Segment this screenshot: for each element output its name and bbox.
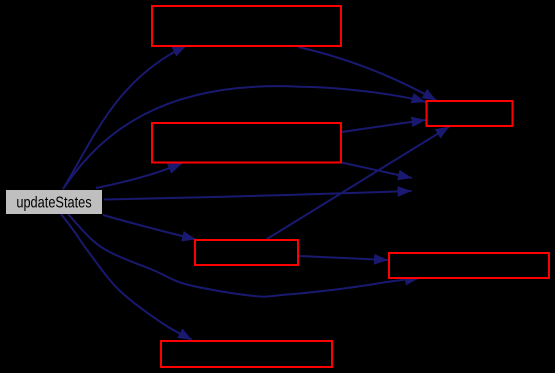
edge boxB->hidden node [342,163,413,179]
edge boxB->boxE [342,120,426,132]
svg-text:updateStates: updateStates [16,194,91,212]
node boxE (small top-right red box) [427,101,513,126]
node boxD (right red box) [389,253,549,278]
edge boxC->boxD [299,256,388,260]
edge updateStates->hidden node (horizontal) [104,191,412,200]
edge updateStates->boxF [61,214,192,340]
edge updateStates->boxB [96,163,182,188]
node boxC (small middle red box) [195,240,298,265]
edge updateStates->boxC [103,215,196,240]
edge updateStates->boxD (long bottom curve) [68,214,419,297]
node boxF (bottom red box) [161,341,332,367]
edge updateStates->boxA [63,46,187,190]
edge boxC->boxE [267,127,450,240]
node updateStates (gray current node) [6,190,102,214]
edge updateStates->boxE (long top curve) [63,86,426,189]
node boxB (second red box) [152,123,341,163]
node boxA (top red box) [152,6,341,46]
edge boxA->boxE [299,47,437,101]
